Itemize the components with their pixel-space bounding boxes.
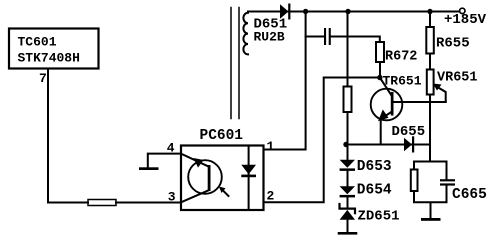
svg-text:3: 3 bbox=[168, 190, 176, 205]
svg-text:4: 4 bbox=[167, 141, 175, 156]
svg-text:2: 2 bbox=[267, 189, 275, 204]
svg-text:VR651: VR651 bbox=[437, 71, 478, 86]
svg-text:D655: D655 bbox=[392, 124, 426, 140]
svg-text:+185V: +185V bbox=[444, 12, 487, 28]
svg-text:ZD651: ZD651 bbox=[358, 209, 400, 225]
svg-text:D654: D654 bbox=[357, 183, 392, 199]
svg-text:TR651: TR651 bbox=[383, 74, 422, 89]
svg-text:1: 1 bbox=[267, 139, 275, 154]
svg-text:STK7408H: STK7408H bbox=[18, 51, 80, 66]
svg-text:R672: R672 bbox=[385, 50, 417, 65]
svg-text:C665: C665 bbox=[452, 187, 487, 203]
svg-text:TC601: TC601 bbox=[18, 35, 57, 50]
svg-text:PC601: PC601 bbox=[200, 128, 244, 144]
svg-text:7: 7 bbox=[39, 71, 47, 86]
svg-text:R655: R655 bbox=[436, 36, 470, 52]
svg-text:D653: D653 bbox=[357, 159, 392, 175]
svg-text:RU2B: RU2B bbox=[254, 30, 285, 45]
